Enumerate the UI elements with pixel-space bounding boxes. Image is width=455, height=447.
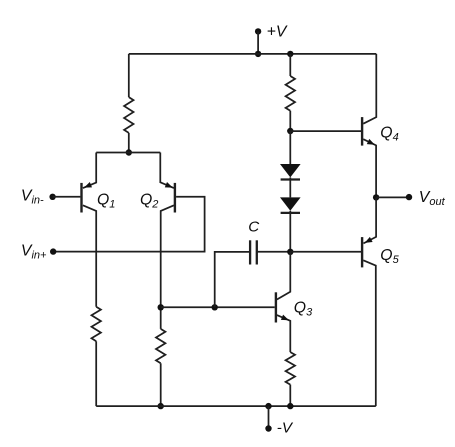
wire Q4 emitter <box>363 139 376 197</box>
wire Vout <box>376 196 409 198</box>
node capacitor branch <box>212 304 218 310</box>
wire resistor to node <box>289 111 291 131</box>
wire chain drop <box>289 54 291 76</box>
wire Q1 load to bottom rail <box>95 341 97 406</box>
wire Q3 base line <box>161 306 275 308</box>
wire tail horizontal <box>96 152 160 154</box>
diode D1 <box>280 164 301 177</box>
resistor Q1 collector load <box>92 307 101 342</box>
node -V tap <box>265 403 271 409</box>
power terminal -V <box>268 406 270 428</box>
emitter arrow Q3 (NPN) <box>281 315 289 321</box>
wire Q1 collector <box>83 205 96 306</box>
wire tail drop <box>128 54 130 97</box>
wire node to diode D1 <box>289 131 291 164</box>
diode D2 <box>280 197 301 210</box>
resistor tail (diff pair bias) <box>124 97 133 133</box>
wire capacitor to node <box>257 251 291 253</box>
junction chain at top rail <box>287 51 293 57</box>
wire bottom -V rail <box>96 405 376 407</box>
transistor Q4 bar <box>361 117 363 146</box>
power terminal +V <box>255 28 261 34</box>
terminal Vin- <box>49 194 55 200</box>
wire Vin- to Q1 base <box>53 196 81 198</box>
node Q3 resistor at bottom rail <box>287 403 293 409</box>
wire Q3 collector <box>277 252 290 300</box>
emitter arrow Q1 (PNP) <box>84 182 92 188</box>
wire D2 to node <box>289 211 291 252</box>
wire Q1 emitter <box>83 153 96 189</box>
transistor Q2 bar <box>174 183 176 213</box>
wire tail resistor to node <box>128 133 130 153</box>
wire Q5 emitter <box>364 197 377 243</box>
node diode bottom / Q5 base / Q3 collector <box>287 249 293 255</box>
svg-text:-V: -V <box>277 419 294 436</box>
wire Q2 base to Vin+ <box>53 197 204 252</box>
node tail junction <box>126 149 132 155</box>
node Vout <box>373 194 379 200</box>
transistor Q1 bar <box>80 183 82 213</box>
node Q2 collector / Q3 base <box>158 304 164 310</box>
wire Q4 collector <box>363 54 376 124</box>
transistor Q3 bar <box>275 292 277 322</box>
wire Q2 emitter <box>160 153 174 189</box>
emitter arrow Q4 (NPN) <box>367 139 375 145</box>
terminal Vout <box>406 194 412 200</box>
resistor Q3 emitter <box>286 352 295 385</box>
wire D1 to D2 <box>289 177 291 197</box>
svg-text:+V: +V <box>267 24 288 41</box>
emitter arrow Q5 (PNP) <box>365 237 373 243</box>
transistor Q5 bar <box>361 237 363 267</box>
emitter arrow Q2 (PNP) <box>165 182 173 188</box>
wire Q4 base <box>290 130 361 132</box>
capacitor C plates <box>249 240 251 264</box>
wire Q5 collector <box>363 260 376 406</box>
wire capacitor branch <box>215 252 249 307</box>
node Q4 base / diode top <box>287 128 293 134</box>
wire Q2 load to bottom rail <box>160 363 162 406</box>
wire Q5 base <box>290 251 361 253</box>
terminal Vin+ <box>50 248 56 254</box>
node Q2 load at bottom rail <box>158 403 164 409</box>
svg-text:C: C <box>248 219 260 236</box>
junction +V on top rail <box>255 51 261 57</box>
resistor Q2 collector load <box>156 329 165 363</box>
wire top +V rail <box>129 53 376 55</box>
wire Q3 emitter <box>277 315 290 352</box>
wire Q2 collector <box>161 205 174 329</box>
resistor bias chain <box>286 76 295 111</box>
wire Q3 resistor to bottom rail <box>289 385 291 407</box>
